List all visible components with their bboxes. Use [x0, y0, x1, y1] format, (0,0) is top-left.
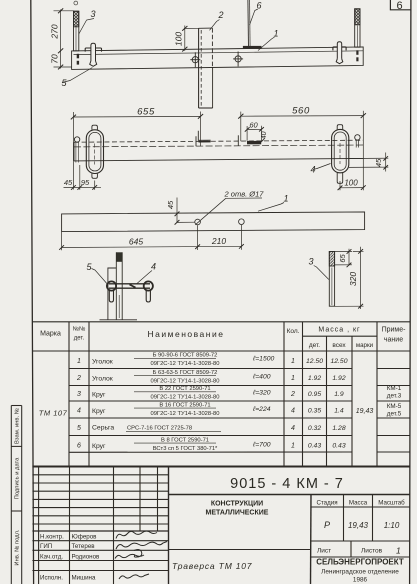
svg-text:Взам. инв. №: Взам. инв. №	[15, 408, 21, 444]
stadia header	[316, 500, 405, 507]
signature grid verticals	[39, 467, 158, 584]
svg-text:Н.контр.: Н.контр.	[40, 534, 64, 541]
list/listov divider	[350, 541, 352, 557]
signature rows text	[40, 534, 100, 582]
svg-text:4: 4	[77, 408, 81, 415]
svg-text:КОНСТРУКЦИИ: КОНСТРУКЦИИ	[211, 501, 263, 508]
list row bottom	[311, 556, 410, 558]
konstrukcii metallicheskie	[206, 501, 269, 517]
scan artifact above left post	[74, 1, 78, 5]
label 4 plan leader	[313, 164, 331, 170]
dim 100 right	[338, 181, 366, 190]
table col Kol/Massa	[302, 322, 304, 467]
svg-text:1: 1	[77, 358, 81, 365]
row 4 krug 16	[92, 402, 271, 417]
prim KM-1 det.3	[387, 385, 402, 400]
svg-text:всех: всех	[332, 342, 346, 349]
svg-text:Б 90-90-6 ГОСТ 8509-72: Б 90-90-6 ГОСТ 8509-72	[153, 353, 218, 359]
right bolt in plan	[355, 135, 360, 148]
svg-text:9015 - 4 КМ - 7: 9015 - 4 КМ - 7	[230, 476, 344, 492]
dim 645/210	[59, 225, 244, 250]
svg-text:210: 210	[211, 236, 226, 246]
svg-text:чание: чание	[384, 337, 403, 344]
shackle det.4 side view	[107, 281, 153, 302]
header Primechanie	[382, 327, 407, 344]
left bolt det.5 plate	[85, 48, 101, 52]
svg-text:2: 2	[290, 391, 295, 398]
svg-text:дет.3: дет.3	[387, 393, 402, 400]
svg-text:270: 270	[50, 24, 60, 39]
svg-text:Уголок: Уголок	[92, 376, 113, 383]
svg-text:ℓ=700: ℓ=700	[252, 442, 271, 449]
svg-text:Родионов: Родионов	[72, 554, 101, 561]
svg-text:ℓ=1500: ℓ=1500	[252, 356, 275, 363]
svg-text:Мишина: Мишина	[72, 575, 96, 582]
plan bar left end	[73, 142, 75, 161]
dim 560	[238, 111, 366, 191]
svg-text:1: 1	[291, 375, 295, 382]
svg-text:марки: марки	[356, 342, 374, 349]
svg-text:В 16 ГОСТ 2590-71: В 16 ГОСТ 2590-71	[159, 402, 210, 408]
left bolt det.5 pin	[90, 43, 97, 66]
svg-text:Тетерев: Тетерев	[72, 543, 96, 550]
prim KM-5 det.5	[387, 403, 402, 418]
svg-text:ГИП: ГИП	[40, 543, 52, 550]
svg-text:Исполн.: Исполн.	[40, 575, 63, 582]
dim 655	[71, 112, 203, 190]
svg-text:45: 45	[166, 200, 175, 209]
stadia header bottom	[311, 506, 410, 508]
row numbers	[76, 358, 81, 450]
svg-text:0.43: 0.43	[332, 443, 345, 450]
svg-text:95: 95	[81, 178, 90, 187]
svg-text:320: 320	[348, 272, 358, 286]
hole 1	[195, 219, 201, 225]
svg-text:560: 560	[292, 106, 310, 117]
row 5 seryga	[92, 425, 221, 432]
svg-text:09Г2С-12 ТУ14-1-3028-80: 09Г2С-12 ТУ14-1-3028-80	[150, 395, 219, 401]
svg-text:3: 3	[91, 9, 96, 19]
konstrukcii cell bottom	[169, 549, 312, 551]
svg-text:19,43: 19,43	[356, 408, 374, 415]
signature teterev	[116, 542, 167, 550]
dim 45 right	[349, 153, 389, 172]
svg-text:Юферов: Юферов	[72, 534, 98, 541]
svg-text:1.28: 1.28	[332, 425, 345, 432]
dim 60/40	[245, 126, 264, 144]
hole 2	[239, 219, 245, 225]
svg-text:ВСт3 сп 5 ГОСТ 380-71*: ВСт3 сп 5 ГОСТ 380-71*	[153, 446, 218, 452]
signature grid horizontals	[32, 475, 168, 571]
svg-text:70: 70	[50, 54, 60, 64]
label 3 leader	[79, 19, 94, 35]
svg-text:6: 6	[396, 0, 402, 12]
svg-text:Инв. № подл.: Инв. № подл.	[15, 529, 21, 565]
svg-text:6: 6	[77, 443, 81, 450]
signature yuferov	[116, 531, 157, 539]
table col Ndet/Naimenovanie	[88, 322, 90, 467]
rod det.6 foot in plan	[247, 141, 261, 144]
row 2 ugolok 63	[92, 370, 271, 385]
row line 4-5	[69, 417, 410, 419]
svg-text:Круг: Круг	[92, 443, 106, 450]
label 4 v4 leader	[137, 271, 152, 284]
dim 320 v5	[335, 247, 364, 309]
plan bar inner edge	[74, 145, 363, 147]
header NN det	[73, 326, 86, 342]
svg-text:45: 45	[64, 178, 73, 187]
svg-text:19,43: 19,43	[348, 521, 369, 530]
svg-text:1986: 1986	[353, 577, 368, 584]
svg-text:Подпись и дата: Подпись и дата	[15, 457, 21, 499]
signature mishina	[119, 574, 149, 579]
svg-text:1: 1	[291, 358, 295, 365]
signature squiggles	[115, 531, 167, 579]
dim 45-95 left	[64, 165, 102, 190]
svg-text:Кол.: Кол.	[287, 328, 300, 335]
bolt symbol right (cross)	[233, 52, 243, 67]
dim 100 mid	[182, 26, 198, 52]
bottom edge line	[100, 319, 138, 321]
strip verticals	[10, 406, 12, 584]
label 5 v4 leader	[92, 269, 108, 285]
header texts	[40, 326, 406, 350]
svg-text:В 8 ГОСТ 2590-71: В 8 ГОСТ 2590-71	[161, 437, 209, 443]
svg-text:Траверса ТМ 107: Траверса ТМ 107	[172, 561, 252, 571]
massa/mashtab divider	[372, 495, 374, 542]
svg-text:100: 100	[344, 179, 358, 188]
kol values	[290, 358, 295, 450]
svg-text:ℓ=400: ℓ=400	[252, 374, 271, 381]
svg-text:Круг: Круг	[92, 392, 106, 399]
svg-text:655: 655	[137, 107, 155, 118]
massa subheader line	[303, 335, 378, 337]
svg-text:645: 645	[129, 237, 143, 247]
frame left border	[31, 0, 34, 584]
svg-text:ℓ=224: ℓ=224	[252, 406, 271, 413]
table col det/vseh	[326, 336, 328, 466]
right bolt plate	[333, 47, 346, 51]
svg-text:Масса , кг: Масса , кг	[318, 327, 360, 334]
row line 6-empty	[69, 451, 410, 453]
row line 2-3	[69, 385, 410, 387]
det.3 post side view	[116, 252, 122, 319]
svg-text:1.9: 1.9	[334, 391, 344, 398]
svg-text:6: 6	[257, 1, 262, 11]
svg-text:Приме-: Приме-	[382, 327, 407, 334]
svg-text:0.95: 0.95	[308, 391, 321, 398]
svg-text:дет.5: дет.5	[387, 411, 402, 418]
left bolt det.5 in plan	[74, 137, 79, 163]
svg-text:1:10: 1:10	[384, 521, 400, 530]
svg-text:Листов: Листов	[361, 548, 383, 555]
svg-text:40: 40	[261, 131, 268, 139]
svg-text:№№: №№	[73, 326, 86, 333]
det.2 angle side view	[108, 268, 116, 320]
right bolt pin	[336, 42, 343, 64]
svg-text:60: 60	[249, 121, 258, 130]
svg-text:45: 45	[374, 158, 383, 167]
svg-text:09Г2С-12 ТУ14-1-3028-80: 09Г2С-12 ТУ14-1-3028-80	[150, 361, 219, 367]
row 1 uglolok 90	[92, 353, 275, 368]
svg-text:12.50: 12.50	[330, 358, 347, 365]
svg-text:Марка: Марка	[40, 331, 61, 338]
svg-text:Уголок: Уголок	[92, 359, 113, 366]
svg-text:09Г2С-12 ТУ14-1-3028-80: 09Г2С-12 ТУ14-1-3028-80	[150, 378, 219, 384]
row line 1-2	[69, 368, 410, 370]
svg-text:65: 65	[338, 254, 347, 263]
bolt symbol left (cross)	[190, 52, 200, 67]
svg-text:Кач.отд.: Кач.отд.	[40, 554, 63, 561]
table col Naim/Kol	[283, 322, 285, 467]
bolt centerline mark right	[237, 135, 239, 145]
svg-text:Р: Р	[324, 520, 330, 530]
dimensions of view 1	[54, 8, 199, 69]
main angle bar det.1 front	[72, 47, 364, 70]
svg-text:1: 1	[284, 194, 289, 204]
bolt centerline mark left	[195, 136, 197, 146]
right shackle det.4 plan	[332, 125, 349, 184]
svg-text:100: 100	[174, 32, 184, 46]
svg-text:1.92: 1.92	[308, 375, 321, 382]
svg-text:2: 2	[76, 375, 81, 382]
det.3 bar	[329, 252, 334, 307]
svg-text:3: 3	[77, 391, 81, 398]
left post hidden dashes	[77, 54, 79, 65]
row line 3-4	[69, 400, 410, 402]
label 1 v3 leader	[258, 203, 284, 212]
row line 5-6	[69, 435, 410, 437]
label 6 leader	[250, 9, 258, 25]
svg-text:Ленинградское отделение: Ленинградское отделение	[321, 569, 399, 576]
svg-text:1.92: 1.92	[332, 375, 345, 382]
svg-text:4: 4	[311, 165, 316, 175]
row 6 krug 8	[92, 437, 271, 452]
svg-text:Серьга: Серьга	[92, 425, 114, 432]
strip cell lines	[11, 405, 21, 407]
format box top-right	[390, 0, 411, 10]
svg-text:СЕЛЬЭНЕРГОПРОЕКТ: СЕЛЬЭНЕРГОПРОЕКТ	[316, 558, 404, 567]
name/stamp divider vertical	[310, 495, 313, 584]
svg-text:ℓ=320: ℓ=320	[252, 390, 271, 397]
svg-text:2 отв. Ø17: 2 отв. Ø17	[224, 190, 265, 199]
svg-text:Б 63-63-5 ГОСТ 8509-72: Б 63-63-5 ГОСТ 8509-72	[153, 370, 218, 376]
svg-text:Лист: Лист	[317, 548, 331, 555]
svg-text:3: 3	[309, 257, 314, 267]
svg-text:0.32: 0.32	[308, 425, 321, 432]
svg-text:1: 1	[396, 546, 401, 556]
svg-text:дет.: дет.	[74, 336, 85, 342]
svg-text:ТМ 107: ТМ 107	[39, 409, 68, 418]
stadia/massa divider	[343, 495, 345, 542]
svg-text:СРС-7-16 ГОСТ 2725-78: СРС-7-16 ГОСТ 2725-78	[127, 426, 192, 432]
svg-text:В 22 ГОСТ 2590-71: В 22 ГОСТ 2590-71	[159, 386, 210, 392]
bar det.1 outline	[62, 212, 365, 232]
mid angle det.2	[199, 28, 213, 108]
grounding rod det.6	[243, 0, 262, 49]
dimensions of view 2	[64, 111, 389, 191]
callout 2 otv d17 leader	[195, 198, 262, 225]
left post det.3 front	[74, 11, 79, 51]
svg-text:КМ-1: КМ-1	[387, 385, 402, 392]
table outline top	[32, 321, 410, 323]
svg-text:1: 1	[274, 29, 279, 39]
frame right border	[410, 0, 411, 584]
svg-text:0.35: 0.35	[308, 408, 321, 415]
svg-text:Стадия: Стадия	[316, 500, 337, 507]
svg-text:09Г2С-12 ТУ14-1-3028-80: 09Г2С-12 ТУ14-1-3028-80	[150, 411, 219, 417]
svg-text:2: 2	[218, 10, 224, 20]
svg-text:4: 4	[151, 262, 156, 272]
svg-text:1.4: 1.4	[334, 408, 344, 415]
label 3 v5 leader	[314, 266, 329, 280]
massa det values	[306, 358, 323, 450]
table col Marka/Ndet	[68, 322, 70, 467]
table col vseh/marki	[351, 336, 353, 466]
svg-text:Круг: Круг	[92, 408, 106, 415]
svg-text:12.50: 12.50	[306, 358, 323, 365]
label 2 leader	[210, 20, 220, 31]
svg-text:Масса: Масса	[349, 500, 368, 507]
svg-text:4: 4	[291, 408, 295, 415]
plan bar bottom edge	[74, 158, 363, 161]
doc number cell bottom	[169, 494, 411, 496]
row 3 krug 22	[92, 386, 271, 401]
left shackle (seryga) plan	[86, 125, 103, 178]
dim 65 v5	[335, 249, 352, 267]
labels of view 1	[62, 9, 275, 83]
dim 270/70 line	[54, 8, 75, 69]
svg-text:дет.: дет.	[309, 342, 320, 349]
values row bottom	[311, 540, 410, 542]
title block top border	[32, 466, 410, 468]
svg-text:0.43: 0.43	[308, 443, 321, 450]
right post det.3 front	[355, 9, 360, 62]
svg-text:Наименование: Наименование	[148, 329, 225, 339]
svg-text:КМ-5: КМ-5	[387, 403, 402, 410]
svg-text:1: 1	[291, 443, 295, 450]
svg-text:Масштаб: Масштаб	[378, 500, 405, 507]
svg-text:4: 4	[291, 425, 295, 432]
svg-text:5: 5	[77, 425, 81, 432]
plan bar det.1 hidden top edge	[74, 140, 363, 142]
label 5 leader	[62, 68, 92, 83]
dim 45 v3	[175, 198, 195, 225]
det.2 bracket in plan	[198, 131, 210, 142]
svg-text:МЕТАЛЛИЧЕСКИЕ: МЕТАЛЛИЧЕСКИЕ	[206, 510, 269, 517]
table col marki/prim	[376, 322, 378, 467]
signature rodionov	[115, 550, 144, 559]
label 1 leader	[258, 37, 275, 51]
massa vseh values	[330, 358, 347, 450]
header bottom line	[32, 350, 410, 352]
divider signature/doc area	[168, 467, 170, 584]
